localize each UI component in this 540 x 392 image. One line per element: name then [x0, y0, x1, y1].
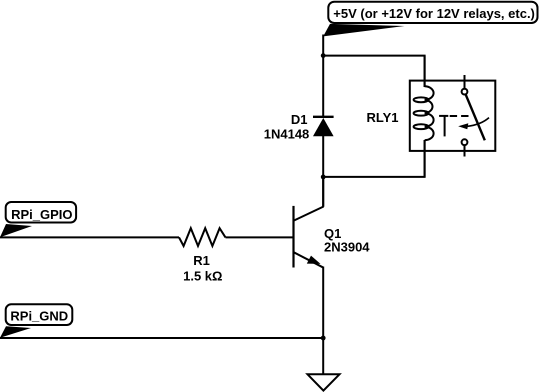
wire resistor to base [226, 236, 294, 238]
relay coil wire bottom [424, 140, 426, 177]
wire RPi_GPIO to resistor [0, 236, 179, 238]
relay switch top contact [462, 89, 468, 95]
diode D1 triangle [313, 118, 334, 136]
node RPi_GPIO flag box [6, 202, 76, 223]
node RPi_GND flag tail [0, 326, 31, 338]
relay link dashed line [450, 115, 469, 117]
node +5V flag tail [323, 24, 404, 37]
junction coil bottom branch [321, 175, 326, 180]
relay motion arrow [467, 118, 490, 127]
node +5V flag box [328, 2, 537, 23]
wire junction to ground [322, 338, 324, 374]
diode D1 cathode bar [313, 116, 334, 118]
relay armature T [439, 115, 448, 117]
transistor Q1 emitter arrow [307, 256, 321, 264]
svg-text:RLY1: RLY1 [366, 110, 398, 125]
transistor Q1 emitter diagonal [294, 252, 323, 267]
svg-text:1.5 kΩ: 1.5 kΩ [183, 268, 222, 283]
relay switch arm [466, 95, 485, 141]
relay coil loop 2 [414, 111, 429, 116]
wire to relay coil top [323, 56, 424, 87]
svg-text:D1: D1 [291, 112, 308, 127]
junction GND [321, 336, 326, 341]
relay coil wire top [424, 56, 426, 87]
wire diode anode down to junction [322, 136, 324, 207]
junction top branch [321, 53, 326, 58]
node RPi_GPIO flag tail [0, 224, 32, 237]
wire emitter down to GND junction [322, 267, 324, 339]
relay coil bumps [425, 86, 434, 140]
wire RPi_GND to junction [0, 337, 323, 339]
ground symbol [308, 374, 340, 390]
svg-text:2N3904: 2N3904 [324, 240, 370, 255]
transistor Q1 collector vertical [322, 177, 324, 207]
relay switch top stub [464, 75, 466, 89]
transistor Q1 collector diagonal [294, 207, 324, 221]
svg-text:1N4148: 1N4148 [264, 126, 310, 141]
svg-text:R1: R1 [193, 253, 210, 268]
relay switch bottom contact [462, 139, 468, 145]
wire to relay coil bottom [323, 140, 424, 177]
transistor Q1 base bar [292, 206, 294, 268]
relay coil loop 1 [414, 97, 429, 102]
wire main vertical top (+5V to diode cathode) [322, 35, 324, 117]
relay switch bottom stub [464, 145, 466, 156]
relay RLY1 box [410, 81, 496, 151]
relay coil loop 3 [414, 124, 429, 129]
svg-text:+5V (or +12V for 12V relays, e: +5V (or +12V for 12V relays, etc.) [333, 6, 535, 21]
node RPi_GND flag box [6, 304, 73, 325]
svg-text:RPi_GPIO: RPi_GPIO [11, 207, 72, 222]
svg-text:RPi_GND: RPi_GND [10, 309, 68, 324]
resistor R1 zigzag [179, 228, 226, 246]
